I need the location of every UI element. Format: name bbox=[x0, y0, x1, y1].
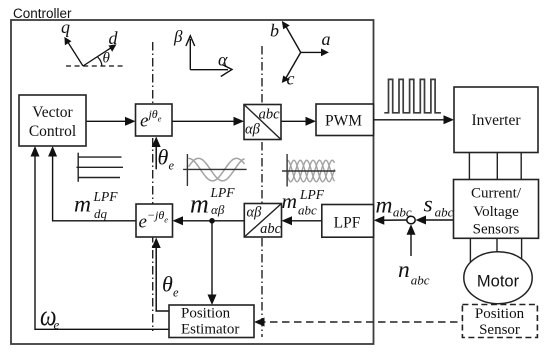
abc axes: a axis bbox=[301, 51, 326, 53]
dash-dot domain boundary line 2 bbox=[261, 46, 263, 337]
junction node dot bbox=[209, 218, 215, 224]
svg-text:θ: θ bbox=[162, 271, 173, 296]
svg-text:αβ: αβ bbox=[245, 122, 261, 138]
Vector Control block bbox=[19, 95, 86, 146]
theta_e wire from Position Estimator to e^-jθe bbox=[156, 241, 169, 312]
dc quantities icon (three lines) bbox=[77, 153, 124, 182]
controller box bbox=[11, 20, 374, 344]
wire omega_e from Position Estimator to Vector Control bbox=[35, 150, 169, 330]
abc axes: b axis bbox=[285, 24, 301, 52]
svg-text:PWM: PWM bbox=[325, 113, 362, 130]
pwm pulse waveform icon bbox=[384, 79, 441, 112]
svg-text:m: m bbox=[376, 193, 393, 219]
wire row2: m_dq from e^-jθe to Vector Control bbox=[53, 150, 136, 221]
svg-text:Vector: Vector bbox=[32, 104, 73, 121]
svg-text:LPF: LPF bbox=[93, 189, 119, 204]
αβ/abc inverse transform block bbox=[244, 204, 281, 238]
svg-text:Sensor: Sensor bbox=[479, 322, 520, 338]
svg-text:abc: abc bbox=[260, 221, 282, 237]
Motor bbox=[464, 252, 532, 304]
svg-text:m: m bbox=[190, 190, 209, 219]
svg-text:c: c bbox=[287, 69, 295, 89]
svg-text:Sensors: Sensors bbox=[473, 222, 520, 238]
svg-text:abc: abc bbox=[298, 202, 317, 217]
svg-text:Estimator: Estimator bbox=[181, 322, 239, 338]
wire LPF to abc/αβ(2) bbox=[285, 220, 322, 222]
svg-text:Voltage: Voltage bbox=[473, 204, 519, 220]
svg-text:LPF: LPF bbox=[299, 187, 325, 202]
e^-jθe block bbox=[136, 204, 173, 237]
alpha-beta sine icon axes bbox=[186, 154, 188, 186]
svg-text:LPF: LPF bbox=[210, 185, 236, 200]
svg-text:d: d bbox=[109, 28, 119, 48]
wires Current/Voltage Sensors to Motor bbox=[470, 238, 521, 262]
n_abc arrow into summing node bbox=[410, 228, 412, 257]
svg-text:s: s bbox=[424, 192, 433, 218]
wires Inverter to Current/Voltage Sensors bbox=[469, 153, 521, 180]
LPF block bbox=[322, 205, 374, 238]
svg-text:Position: Position bbox=[475, 306, 525, 322]
svg-text:Current/: Current/ bbox=[471, 186, 522, 202]
svg-text:m: m bbox=[74, 192, 91, 218]
alpha-beta axes: alpha axis bbox=[190, 69, 228, 71]
alpha-beta axes: beta axis bbox=[189, 39, 191, 70]
svg-text:abc: abc bbox=[411, 273, 430, 288]
wire PWM to Inverter bbox=[374, 119, 451, 121]
svg-text:dq: dq bbox=[94, 206, 108, 221]
svg-text:Control: Control bbox=[29, 123, 76, 140]
svg-text:m: m bbox=[282, 189, 298, 213]
summing node circle bbox=[407, 216, 415, 224]
wire junction down to Position Estimator bbox=[211, 221, 213, 302]
svg-text:β: β bbox=[173, 27, 183, 46]
svg-text:a: a bbox=[322, 29, 331, 49]
svg-text:n: n bbox=[398, 257, 410, 283]
e^jθe block bbox=[136, 104, 173, 136]
wire e^jθe to abc/αβ bbox=[172, 120, 241, 122]
svg-text:α: α bbox=[218, 50, 228, 70]
dq axes: q axis arrow bbox=[67, 41, 83, 67]
wire sensors to summing node bbox=[419, 219, 454, 221]
svg-text:Position: Position bbox=[181, 306, 231, 322]
svg-text:αβ: αβ bbox=[211, 202, 225, 217]
theta_e arrow into e^jθe bottom bbox=[155, 140, 157, 170]
Position Estimator block bbox=[169, 305, 254, 338]
svg-text:abc: abc bbox=[259, 107, 281, 123]
svg-text:αβ: αβ bbox=[247, 205, 263, 221]
abc sine waveform icon bbox=[288, 160, 335, 182]
dq axes: dashed baseline bbox=[66, 65, 126, 67]
abc sine icon axes bbox=[286, 154, 288, 187]
svg-text:e: e bbox=[173, 286, 179, 300]
svg-text:θ: θ bbox=[158, 145, 169, 170]
svg-text:abc: abc bbox=[435, 205, 454, 220]
Position Sensor block (dashed) bbox=[462, 305, 537, 338]
svg-text:LPF: LPF bbox=[334, 215, 361, 232]
svg-text:abc: abc bbox=[393, 205, 412, 220]
dash-dot domain boundary line 1 bbox=[152, 42, 154, 331]
wire abc/αβ(2) to e^-jθe with junction bbox=[176, 220, 244, 222]
wire VC to e^jθe bbox=[86, 120, 132, 122]
dq axes: theta angle arc bbox=[98, 57, 102, 66]
svg-text:e: e bbox=[169, 159, 175, 173]
svg-text:e: e bbox=[54, 317, 60, 332]
Inverter block bbox=[454, 87, 538, 153]
dashed feedback from Position Sensor to Position Estimator bbox=[258, 321, 462, 323]
svg-text:Motor: Motor bbox=[477, 273, 520, 291]
svg-text:q: q bbox=[61, 17, 70, 37]
svg-text:θ: θ bbox=[103, 51, 111, 67]
abc/αβ transform block bbox=[244, 105, 281, 140]
wire summing node to LPF bbox=[377, 219, 407, 221]
abc axes: c axis bbox=[285, 52, 301, 80]
dq axes: d axis arrow bbox=[83, 46, 114, 66]
wire abc/αβ to PWM bbox=[281, 120, 313, 122]
svg-text:b: b bbox=[270, 21, 279, 41]
alpha-beta sine waveform icon bbox=[189, 158, 245, 181]
Current/Voltage Sensors block bbox=[454, 180, 539, 239]
svg-text:Inverter: Inverter bbox=[471, 112, 521, 129]
PWM block bbox=[316, 104, 374, 136]
